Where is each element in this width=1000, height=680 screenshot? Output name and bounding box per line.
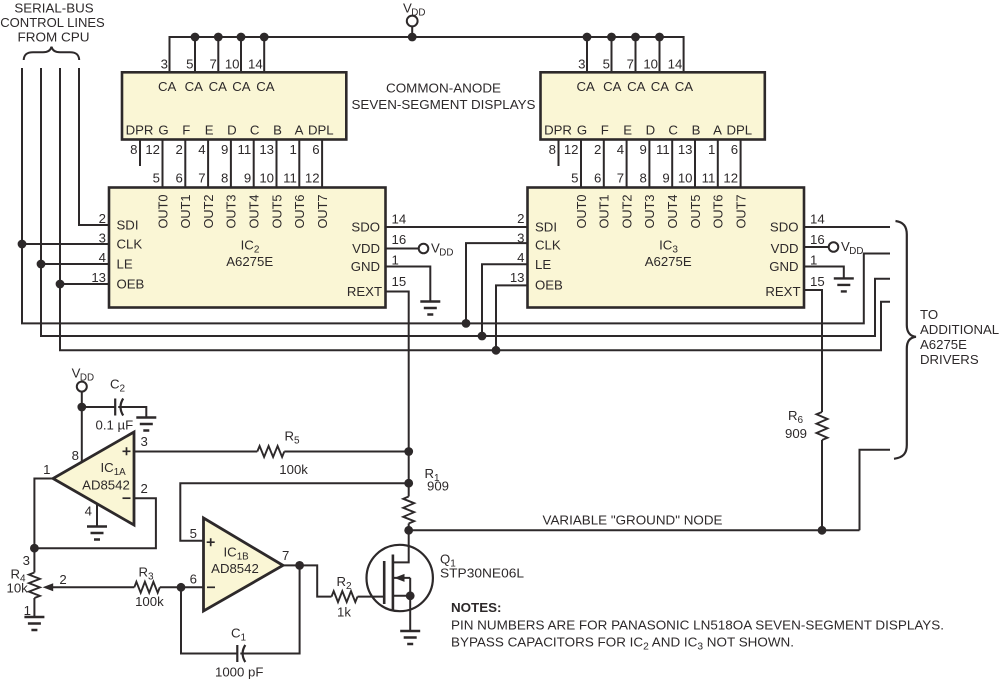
pin numbers DS2 bottom <box>549 142 738 157</box>
label R3 <box>135 565 164 609</box>
svg-text:13: 13 <box>259 142 274 157</box>
wire ground node to additional drivers <box>860 450 891 531</box>
svg-text:A: A <box>713 122 722 137</box>
svg-text:B: B <box>273 122 282 137</box>
svg-text:DD: DD <box>80 372 94 383</box>
svg-text:OUT7: OUT7 <box>315 195 330 229</box>
svg-text:OEB: OEB <box>535 277 563 292</box>
svg-text:2: 2 <box>141 481 148 496</box>
svg-text:SERIAL-BUS: SERIAL-BUS <box>14 1 93 16</box>
svg-text:0.1 µF: 0.1 µF <box>96 418 134 433</box>
text note pin numbers <box>451 617 944 632</box>
svg-text:9: 9 <box>640 142 647 157</box>
svg-text:OUT5: OUT5 <box>688 195 703 229</box>
svg-text:DD: DD <box>439 247 453 258</box>
svg-text:E: E <box>623 122 632 137</box>
svg-text:10: 10 <box>678 170 693 185</box>
svg-text:SDO: SDO <box>770 220 799 235</box>
svg-text:6: 6 <box>190 572 197 587</box>
node IC3 CLK junction <box>462 319 471 328</box>
svg-text:A6275E: A6275E <box>226 254 273 269</box>
svg-text:7: 7 <box>282 548 289 563</box>
svg-text:4: 4 <box>99 250 106 265</box>
svg-text:E: E <box>205 122 214 137</box>
svg-text:CA: CA <box>158 79 177 94</box>
svg-text:LE: LE <box>117 256 133 271</box>
label R2 <box>337 574 353 620</box>
svg-text:OUT1: OUT1 <box>178 195 193 229</box>
LED driver IC3 A6275E <box>528 188 805 308</box>
svg-text:TO: TO <box>920 307 938 322</box>
node IC3 OEB junction <box>492 346 501 355</box>
svg-text:B: B <box>692 122 701 137</box>
svg-text:11: 11 <box>283 170 297 185</box>
svg-text:2: 2 <box>59 572 66 587</box>
svg-text:1: 1 <box>392 253 399 268</box>
svg-text:8: 8 <box>549 142 556 157</box>
seven-segment display DS2 <box>541 72 765 139</box>
wire IC2 SDO to IC3 SDI <box>386 226 528 228</box>
wire R5 to R1 node <box>284 451 408 453</box>
svg-text:CA: CA <box>185 79 204 94</box>
labels IC2 right pins <box>347 220 382 300</box>
svg-text:DD: DD <box>849 246 863 257</box>
svg-text:DPL: DPL <box>308 122 334 137</box>
labels IC3 left pins <box>535 219 563 292</box>
svg-text:G: G <box>577 122 587 137</box>
svg-text:8: 8 <box>221 170 228 185</box>
ground IC2 <box>420 302 440 315</box>
wire IC2 VDD pin16 <box>386 248 419 250</box>
text NOTES <box>451 600 502 615</box>
svg-text:2: 2 <box>517 211 524 226</box>
svg-text:OUT4: OUT4 <box>665 195 680 229</box>
label IC1A designator <box>82 460 130 493</box>
svg-text:DRIVERS: DRIVERS <box>920 352 979 367</box>
power VDD terminal IC2 <box>419 244 429 254</box>
svg-text:5: 5 <box>190 526 197 541</box>
svg-text:NOTES:: NOTES: <box>451 600 502 615</box>
svg-text:4: 4 <box>617 142 624 157</box>
wire R3 to IC1B inverting <box>160 586 204 588</box>
svg-text:7: 7 <box>198 170 205 185</box>
wire C1 left leg <box>181 587 237 653</box>
svg-text:14: 14 <box>810 212 825 227</box>
svg-text:2: 2 <box>99 211 106 226</box>
svg-text:OUT0: OUT0 <box>574 195 589 229</box>
label C2 value <box>96 418 134 433</box>
pin numbers IC2 outputs <box>153 170 320 185</box>
labels DS2 segments <box>544 122 752 137</box>
svg-text:OUT2: OUT2 <box>619 195 634 229</box>
wire IC1A supply pin8 <box>81 392 83 463</box>
wire IC3 CLK tap <box>466 243 528 323</box>
svg-text:12: 12 <box>564 142 579 157</box>
svg-text:OUT3: OUT3 <box>224 195 239 229</box>
wire feedback to R4 <box>33 548 35 572</box>
pin numbers IC3 right <box>810 212 825 289</box>
wire CLK stub to IC2 <box>22 243 109 245</box>
svg-text:4: 4 <box>85 504 92 519</box>
svg-text:4: 4 <box>198 142 205 157</box>
svg-text:3: 3 <box>23 553 30 568</box>
svg-text:1000 pF: 1000 pF <box>215 665 263 680</box>
svg-text:5: 5 <box>571 170 578 185</box>
text note bypass <box>451 634 794 652</box>
nodes VDD rail to display anodes <box>191 33 664 42</box>
wire C1 right leg <box>240 565 299 653</box>
resistor R5 <box>257 446 284 457</box>
svg-text:3: 3 <box>578 56 585 71</box>
wire variable ground node <box>409 529 860 531</box>
svg-text:C: C <box>668 122 678 137</box>
svg-text:6: 6 <box>312 142 319 157</box>
svg-text:OEB: OEB <box>117 277 145 292</box>
resistor R3 <box>134 582 160 593</box>
pin numbers IC3 left <box>510 211 525 285</box>
node IC1B output junction <box>295 561 304 570</box>
svg-text:C: C <box>250 122 260 137</box>
wire R4 to ground <box>33 598 35 617</box>
label R4 <box>7 567 29 596</box>
svg-text:100k: 100k <box>135 594 164 609</box>
wire CLK net from CPU <box>22 68 890 323</box>
svg-text:REXT: REXT <box>765 284 800 299</box>
svg-text:VDD: VDD <box>771 241 799 256</box>
node R5 R1 junction <box>404 447 413 456</box>
label C1 value <box>215 665 263 680</box>
node IC3 LE junction <box>478 332 487 341</box>
wire OEB net from CPU <box>60 68 890 350</box>
svg-text:1k: 1k <box>337 604 351 619</box>
wire IC3 LE tap <box>482 264 528 336</box>
wire IC2 REXT to R1 node <box>386 292 409 452</box>
svg-text:OUT2: OUT2 <box>201 195 216 229</box>
svg-text:2: 2 <box>175 142 182 157</box>
resistor R1 <box>403 497 414 524</box>
ground C2 <box>136 418 156 431</box>
wire IC3 SDO out <box>804 226 890 228</box>
pin numbers DS1 top <box>161 56 263 71</box>
svg-text:3: 3 <box>99 230 106 245</box>
svg-text:909: 909 <box>785 426 807 441</box>
labels DS2 CA anodes <box>577 79 694 94</box>
ground IC3 <box>834 278 854 291</box>
wire OEB stub to IC2 <box>60 283 109 285</box>
resistor R6 <box>817 412 828 440</box>
wire R2 to gate <box>358 596 385 598</box>
svg-text:6: 6 <box>594 170 601 185</box>
wire IC1B output <box>283 565 332 596</box>
svg-text:LE: LE <box>535 257 551 272</box>
svg-text:OUT7: OUT7 <box>733 195 748 229</box>
svg-text:16: 16 <box>392 232 407 247</box>
svg-text:2: 2 <box>594 142 601 157</box>
svg-text:10: 10 <box>643 56 658 71</box>
labels IC2 left pins <box>117 218 145 292</box>
svg-text:15: 15 <box>810 274 825 289</box>
svg-text:AD8542: AD8542 <box>82 477 130 492</box>
svg-text:8: 8 <box>640 170 647 185</box>
svg-text:9: 9 <box>662 170 669 185</box>
svg-text:AD8542: AD8542 <box>211 561 259 576</box>
svg-text:PIN NUMBERS ARE FOR PANASONIC: PIN NUMBERS ARE FOR PANASONIC LN518OA SE… <box>451 617 944 632</box>
svg-text:FROM CPU: FROM CPU <box>18 30 90 45</box>
svg-text:A6275E: A6275E <box>920 337 967 352</box>
wire R1 top <box>408 452 410 497</box>
svg-text:8: 8 <box>72 448 79 463</box>
svg-text:CA: CA <box>603 79 622 94</box>
wire LE net from CPU <box>41 68 890 336</box>
wiper R4 <box>43 583 135 591</box>
wire IC3 VDD pin16 <box>804 246 829 248</box>
svg-text:CA: CA <box>232 79 251 94</box>
svg-text:CA: CA <box>627 79 646 94</box>
svg-text:SEVEN-SEGMENT DISPLAYS: SEVEN-SEGMENT DISPLAYS <box>352 97 536 112</box>
LED driver IC2 A6275E <box>109 188 386 308</box>
plus sign IC1B <box>207 538 215 546</box>
wire R1 bottom <box>408 524 410 531</box>
text COMMON-ANODE SEVEN-SEGMENT DISPLAYS <box>352 81 536 113</box>
svg-text:100k: 100k <box>279 462 308 477</box>
pin numbers R4 <box>23 553 67 618</box>
label IC3 designator <box>645 238 692 269</box>
power VDD terminal IC3 <box>829 242 839 252</box>
resistor R4 potentiometer <box>29 573 40 599</box>
minus sign IC1A <box>123 497 131 499</box>
wire IC3 GND pin1 <box>804 267 844 279</box>
wire IC1A output pin1 <box>34 479 53 549</box>
minus sign IC1B <box>207 586 215 588</box>
wires DS2 segment pins to IC3 <box>559 140 741 188</box>
svg-text:909: 909 <box>427 479 449 494</box>
wire IC1A pin4 to ground <box>96 504 98 527</box>
svg-text:1: 1 <box>43 462 50 477</box>
svg-text:REXT: REXT <box>347 284 382 299</box>
svg-text:6: 6 <box>175 170 182 185</box>
pin numbers DS1 bottom <box>130 142 319 157</box>
svg-text:OUT1: OUT1 <box>597 195 612 229</box>
label IC2 designator <box>226 238 273 269</box>
svg-text:D: D <box>227 122 237 137</box>
svg-text:11: 11 <box>237 142 251 157</box>
labels DS1 CA anodes <box>158 79 275 94</box>
labels IC3 right pins <box>765 220 800 300</box>
svg-text:10: 10 <box>259 170 274 185</box>
svg-text:D: D <box>646 122 656 137</box>
node VDD rail junction <box>408 33 417 42</box>
wire VDD to C2 <box>82 406 115 408</box>
pin numbers IC1A <box>43 434 148 519</box>
op-amp IC1B AD8542 <box>204 518 284 611</box>
label VDD at IC1A <box>72 365 94 383</box>
svg-text:DPR: DPR <box>126 122 154 137</box>
svg-text:F: F <box>182 122 190 137</box>
label IC1B designator <box>211 545 259 576</box>
label VDD at IC3 <box>841 239 863 257</box>
svg-text:GND: GND <box>769 259 798 274</box>
node IC1A feedback junction <box>30 544 39 553</box>
wire LE stub to IC2 <box>41 263 109 265</box>
node VDD C2 junction <box>77 403 86 412</box>
label VARIABLE GROUND NODE <box>543 512 723 527</box>
svg-text:DD: DD <box>411 7 425 18</box>
svg-text:12: 12 <box>305 170 320 185</box>
svg-text:3: 3 <box>141 434 148 449</box>
label R6 <box>785 408 807 441</box>
svg-text:SDI: SDI <box>535 219 557 234</box>
svg-text:CONTROL LINES: CONTROL LINES <box>0 15 105 30</box>
pin numbers DS2 top <box>578 56 682 71</box>
node R1 tap to IC1B <box>404 479 413 488</box>
label C1 <box>231 626 247 644</box>
node OEB-IC2 junction <box>56 280 65 289</box>
labels DS1 segments <box>126 122 334 137</box>
svg-text:CA: CA <box>209 79 228 94</box>
svg-text:A6275E: A6275E <box>645 254 692 269</box>
svg-text:15: 15 <box>392 274 407 289</box>
svg-text:CLK: CLK <box>117 237 143 252</box>
pin numbers IC1B <box>190 526 290 587</box>
svg-text:CA: CA <box>651 79 670 94</box>
svg-text:GND: GND <box>351 259 380 274</box>
pin numbers IC2 left <box>91 211 106 285</box>
svg-text:OUT6: OUT6 <box>292 195 307 229</box>
wire R6 to ground node <box>821 440 823 530</box>
brace serial-bus group <box>24 47 79 60</box>
ground R4 <box>24 617 44 630</box>
svg-text:CA: CA <box>675 79 694 94</box>
labels IC3 OUT0-OUT7 <box>574 195 749 229</box>
svg-text:9: 9 <box>244 170 251 185</box>
svg-text:5: 5 <box>153 170 160 185</box>
plus sign IC1A <box>123 447 131 455</box>
wire IC1A out+ to R5 <box>134 451 257 453</box>
resistor R2 <box>332 591 358 602</box>
svg-text:8: 8 <box>130 142 137 157</box>
label C2 <box>110 377 126 395</box>
wire IC1A inverting feedback <box>34 498 155 548</box>
label VDD at IC2 <box>431 240 453 258</box>
node R6 ground-node junction <box>818 526 827 535</box>
svg-text:4: 4 <box>517 250 524 265</box>
wire VDD rail <box>170 37 684 72</box>
svg-text:16: 16 <box>810 232 825 247</box>
svg-text:VDD: VDD <box>352 241 380 256</box>
svg-text:1: 1 <box>289 142 296 157</box>
labels IC2 OUT0-OUT7 <box>155 195 330 229</box>
svg-text:OUT0: OUT0 <box>155 195 170 229</box>
svg-text:6: 6 <box>731 142 738 157</box>
svg-text:CA: CA <box>577 79 596 94</box>
svg-text:5: 5 <box>186 56 193 71</box>
svg-text:VARIABLE "GROUND" NODE: VARIABLE "GROUND" NODE <box>543 512 723 527</box>
wire IC3 OEB tap <box>496 285 528 350</box>
node LE-IC2 junction <box>37 260 46 269</box>
svg-text:7: 7 <box>617 170 624 185</box>
svg-text:1: 1 <box>810 253 817 268</box>
label Q1 <box>440 552 524 581</box>
op-amp IC1A AD8542 <box>53 432 134 525</box>
label R1 <box>425 466 450 494</box>
svg-text:7: 7 <box>627 56 634 71</box>
svg-text:10k: 10k <box>7 581 29 596</box>
text SERIAL-BUS CONTROL LINES FROM CPU <box>0 1 105 45</box>
svg-text:14: 14 <box>668 56 683 71</box>
svg-text:STP30NE06L: STP30NE06L <box>440 566 524 581</box>
svg-text:11: 11 <box>656 142 670 157</box>
power VDD terminal IC1A <box>77 382 87 392</box>
power VDD terminal top <box>407 16 418 37</box>
svg-text:13: 13 <box>91 270 106 285</box>
svg-text:13: 13 <box>510 270 525 285</box>
svg-text:SDO: SDO <box>351 220 380 235</box>
svg-text:14: 14 <box>248 56 263 71</box>
svg-text:14: 14 <box>392 212 407 227</box>
wire Q1 source to ground <box>409 596 411 631</box>
wire IC3 REXT to R6 <box>804 290 822 412</box>
wires VDD rail to display anode pins <box>195 37 660 72</box>
svg-text:F: F <box>601 122 609 137</box>
node R3 C1 junction <box>177 583 186 592</box>
seven-segment display DS1 <box>122 72 346 139</box>
svg-text:CA: CA <box>256 79 275 94</box>
capacitor C2 <box>115 399 123 416</box>
svg-text:OUT4: OUT4 <box>247 195 262 229</box>
svg-text:G: G <box>158 122 168 137</box>
svg-text:12: 12 <box>723 170 738 185</box>
svg-text:9: 9 <box>221 142 228 157</box>
brace to-additional-drivers <box>894 221 916 459</box>
svg-text:11: 11 <box>702 170 716 185</box>
svg-text:DPL: DPL <box>726 122 752 137</box>
label VDD top <box>403 0 425 18</box>
svg-text:10: 10 <box>225 56 240 71</box>
svg-text:DPR: DPR <box>544 122 572 137</box>
wire R1 tap to IC1B noninverting <box>180 483 408 541</box>
label R5 <box>279 429 308 477</box>
svg-text:SDI: SDI <box>117 218 139 233</box>
svg-text:12: 12 <box>145 142 160 157</box>
svg-text:CLK: CLK <box>535 238 561 253</box>
node R1 bottom junction <box>404 526 413 535</box>
node CLK-IC2 junction <box>18 240 27 249</box>
wire IC2 GND pin1 <box>386 267 431 302</box>
svg-text:5: 5 <box>603 56 610 71</box>
transistor Q1 STP30NE06L <box>367 530 433 611</box>
svg-text:7: 7 <box>209 56 216 71</box>
svg-text:3: 3 <box>161 56 168 71</box>
svg-text:1: 1 <box>708 142 715 157</box>
pin numbers IC2 right <box>392 212 407 289</box>
pin numbers IC3 outputs <box>571 170 738 185</box>
capacitor C1 <box>237 645 245 662</box>
svg-text:A: A <box>295 122 304 137</box>
svg-text:OUT6: OUT6 <box>711 195 726 229</box>
wire SDI from CPU to IC2 <box>79 68 109 225</box>
svg-text:COMMON-ANODE: COMMON-ANODE <box>386 81 501 96</box>
svg-text:OUT5: OUT5 <box>269 195 284 229</box>
svg-text:OUT3: OUT3 <box>642 195 657 229</box>
wire C2 to ground <box>118 407 146 418</box>
wires DS1 segment pins to IC2 <box>140 140 322 188</box>
ground Q1 <box>400 631 420 644</box>
text TO ADDITIONAL A6275E DRIVERS <box>920 307 999 367</box>
svg-text:ADDITIONAL: ADDITIONAL <box>920 322 999 337</box>
svg-text:13: 13 <box>678 142 693 157</box>
ground IC1A pin4 <box>87 527 107 540</box>
